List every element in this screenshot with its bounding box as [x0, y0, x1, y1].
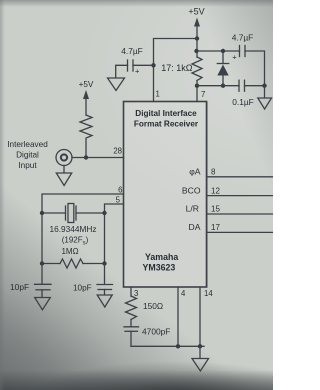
pin 8 φA output — [189, 167, 273, 177]
svg-text:Interleaved: Interleaved — [7, 140, 48, 149]
svg-text:+5V: +5V — [79, 80, 94, 89]
svg-text:14: 14 — [204, 289, 213, 298]
svg-text:4700pF: 4700pF — [142, 327, 170, 337]
svg-text:5: 5 — [116, 196, 121, 205]
resistor R3 1MΩ — [40, 247, 107, 268]
svg-text:8: 8 — [211, 168, 216, 177]
svg-text:1: 1 — [156, 90, 160, 99]
svg-text:4.7µF: 4.7µF — [232, 33, 254, 43]
svg-text:10pF: 10pF — [10, 282, 29, 292]
junction dot ground rail — [262, 84, 266, 88]
svg-text:Digital Interface: Digital Interface — [135, 109, 197, 118]
svg-text:16.9344MHz: 16.9344MHz — [49, 224, 96, 234]
capacitor C6 4700pF — [124, 320, 170, 347]
ground (left 10pF) — [35, 298, 51, 310]
wire bottom rail — [131, 345, 204, 347]
wire pin7 node to C3 — [197, 85, 239, 87]
ground (below C1) — [108, 78, 125, 91]
svg-text:0.1µF: 0.1µF — [232, 97, 254, 107]
svg-text:150Ω: 150Ω — [143, 301, 163, 311]
svg-text:15: 15 — [211, 205, 220, 214]
pin 15 L/R output — [186, 204, 273, 215]
connector J1 RCA digital input — [56, 150, 72, 166]
svg-text:17: 17 — [211, 223, 220, 232]
junction dot pin1/C1 node — [151, 63, 155, 67]
svg-text:Format Receiver: Format Receiver — [134, 120, 199, 129]
ground (right rail) — [258, 86, 272, 109]
wire +5V rail to pin 1 branch — [154, 39, 198, 102]
svg-text:BCO: BCO — [182, 186, 201, 196]
wire R3 to C4 — [41, 264, 43, 285]
pin 12 BCO output — [182, 186, 273, 196]
svg-text:3: 3 — [134, 289, 138, 298]
wire pin 14 — [199, 287, 201, 346]
resistor R4 150Ω — [126, 296, 164, 320]
+5V supply (input pull-up) — [79, 80, 94, 115]
junction dot R2 / pin28 — [84, 155, 88, 159]
crystal labels — [49, 224, 96, 247]
wire +5V node down to R1 — [196, 39, 198, 58]
svg-text:Yamaha: Yamaha — [145, 252, 178, 262]
capacitor C3 0.1µF — [232, 80, 264, 107]
wire pin 28 input — [72, 157, 124, 159]
svg-text:4.7µF: 4.7µF — [121, 46, 143, 56]
IC U1 YM3623 body — [124, 102, 207, 288]
capacitor C4 10pF (left) — [10, 282, 51, 297]
junction dot +5V node — [195, 36, 199, 40]
wire R3 to C5 — [104, 264, 106, 285]
svg-text:DA: DA — [189, 222, 201, 232]
svg-text:17: 1kΩ: 17: 1kΩ — [161, 63, 193, 73]
wire crystal to R3 (right) — [104, 213, 106, 264]
junction dot pin 4 — [176, 344, 180, 348]
wire crystal to R3 (left) — [41, 213, 43, 264]
crystal X1 16.9344MHz — [40, 204, 107, 223]
junction dot zener bottom — [221, 84, 225, 88]
svg-text:7: 7 — [201, 90, 205, 99]
wire R1 to pin 7 — [196, 81, 198, 102]
svg-text:6: 6 — [118, 186, 122, 195]
svg-text:Input: Input — [18, 161, 37, 170]
svg-text:+: + — [135, 67, 140, 76]
junction dot zener top — [221, 49, 225, 53]
wire C2 to ground rail — [245, 51, 265, 86]
junction dot pin 14 — [198, 344, 202, 348]
svg-text:+5V: +5V — [188, 7, 204, 17]
wire pin 5 to crystal right — [105, 204, 124, 213]
svg-text:10pF: 10pF — [73, 284, 92, 293]
svg-text:Digital: Digital — [16, 151, 39, 160]
+5V supply (top) — [188, 7, 204, 39]
svg-text:YM3623: YM3623 — [143, 263, 176, 273]
wire +5V branch to C2 — [197, 50, 240, 52]
capacitor C2 4.7µF (right) — [232, 33, 254, 62]
junction dot right branch node — [194, 49, 198, 53]
svg-text:1MΩ: 1MΩ — [61, 247, 78, 256]
svg-text:(192Fs): (192Fs) — [62, 236, 89, 247]
capacitor C5 10pF (right) — [73, 284, 113, 295]
ground (below J1) — [56, 166, 71, 186]
svg-text:L/R: L/R — [186, 204, 199, 214]
label Interleaved Digital Input — [7, 140, 48, 170]
ground (right 10pF) — [97, 295, 112, 307]
pin 17 DA output — [189, 222, 273, 232]
svg-text:4: 4 — [181, 289, 186, 298]
svg-text:+: + — [232, 53, 237, 62]
svg-text:φA: φA — [189, 167, 201, 177]
ground (bottom) — [192, 346, 209, 371]
junction dot pin7 node — [195, 84, 199, 88]
wire pin 4 — [177, 287, 179, 346]
capacitor C1 4.7µF (left) — [116, 46, 154, 78]
zener diode D1 — [217, 51, 228, 86]
svg-text:12: 12 — [211, 187, 220, 196]
wire pin 6 to crystal left — [42, 194, 124, 213]
resistor R1 1kΩ — [161, 57, 202, 81]
wire pin 3 — [130, 287, 132, 296]
resistor R2 (pull to +5V) — [80, 115, 92, 158]
svg-text:28: 28 — [113, 147, 122, 156]
